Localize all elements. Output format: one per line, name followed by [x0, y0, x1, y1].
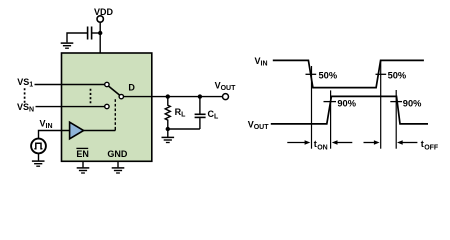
50% tick (rising): [376, 73, 387, 75]
svg-text:EN: EN: [76, 149, 89, 159]
pulse symbol: [34, 143, 42, 149]
switch arm: [109, 86, 120, 95]
svg-text:VOUT: VOUT: [248, 120, 270, 132]
measure line VIN rising edge: [380, 61, 382, 149]
svg-text:50%: 50%: [319, 70, 338, 80]
capacitor CL: [199, 97, 201, 114]
svg-text:VIN: VIN: [255, 56, 268, 68]
VOUT waveform: [271, 96, 428, 124]
switch throw SN terminal: [105, 104, 109, 108]
ground (GND): [112, 168, 125, 173]
svg-text:RL: RL: [175, 107, 187, 119]
EN pin label (overline): [76, 147, 88, 149]
wire source to ground: [38, 153, 40, 161]
wire VSN: [36, 106, 105, 108]
wire GND to ground: [117, 162, 119, 168]
svg-text:50%: 50%: [388, 70, 407, 80]
pulse source V1: [31, 139, 46, 154]
svg-text:90%: 90%: [403, 99, 422, 109]
svg-text:VSN: VSN: [17, 102, 34, 114]
wire VIN to buffer: [39, 131, 70, 139]
svg-text:OFF: OFF: [424, 145, 439, 152]
svg-text:ON: ON: [317, 145, 328, 152]
svg-text:GND: GND: [107, 149, 128, 159]
svg-text:VDD: VDD: [94, 7, 114, 17]
ground (load): [162, 137, 175, 142]
svg-text:VOUT: VOUT: [215, 80, 237, 92]
svg-text:VS1: VS1: [17, 77, 33, 89]
wire VS1: [35, 84, 105, 86]
switch pole terminal D: [119, 94, 123, 98]
bypass capacitor: [88, 27, 92, 40]
wire output node D to VOUT: [124, 96, 223, 98]
svg-text:90%: 90%: [337, 99, 356, 109]
ground (pulse source): [32, 161, 45, 166]
tOFF arrow right: [402, 142, 417, 144]
svg-text:CL: CL: [208, 109, 220, 121]
wire to load ground: [167, 129, 169, 137]
90% tick (rising): [324, 101, 337, 103]
wire buffer output riser: [114, 127, 116, 131]
VIN waveform: [273, 60, 424, 87]
svg-text:D: D: [128, 82, 135, 92]
wire VDD to box: [99, 22, 101, 53]
ground (bypass cap): [61, 43, 74, 48]
svg-text:VIN: VIN: [40, 119, 53, 131]
VOUT terminal (left diagram): [223, 94, 229, 100]
tOFF arrow left: [364, 142, 375, 144]
wire cap to ground: [67, 33, 88, 42]
tON arrow right: [337, 142, 353, 144]
wire buffer output: [84, 130, 116, 132]
input ellipsis dots: [24, 88, 26, 103]
wire cap to VDD: [92, 32, 101, 34]
switch control dashed link: [114, 99, 116, 127]
switch ellipsis dots (inside box): [90, 89, 92, 104]
switch block body U1: [62, 53, 152, 161]
ground (EN): [77, 168, 90, 173]
junction CL: [198, 94, 202, 98]
junction RL/CL bottom: [166, 127, 170, 131]
wire EN to ground: [82, 162, 84, 168]
resistor RL: [165, 97, 170, 129]
junction VDD/cap: [98, 31, 102, 35]
switch throw S1 terminal: [105, 82, 109, 86]
junction RL: [166, 94, 170, 98]
90% tick (falling): [390, 101, 402, 103]
measure line VIN falling edge: [311, 66, 313, 149]
wire CL to RL bottom: [168, 128, 200, 130]
buffer driver A1: [70, 122, 84, 139]
50% tick (falling): [306, 73, 317, 75]
measure line VOUT falling edge: [395, 90, 397, 149]
measure line VOUT rising edge: [330, 90, 332, 148]
tON arrow left: [287, 142, 306, 144]
VDD terminal: [97, 16, 103, 22]
